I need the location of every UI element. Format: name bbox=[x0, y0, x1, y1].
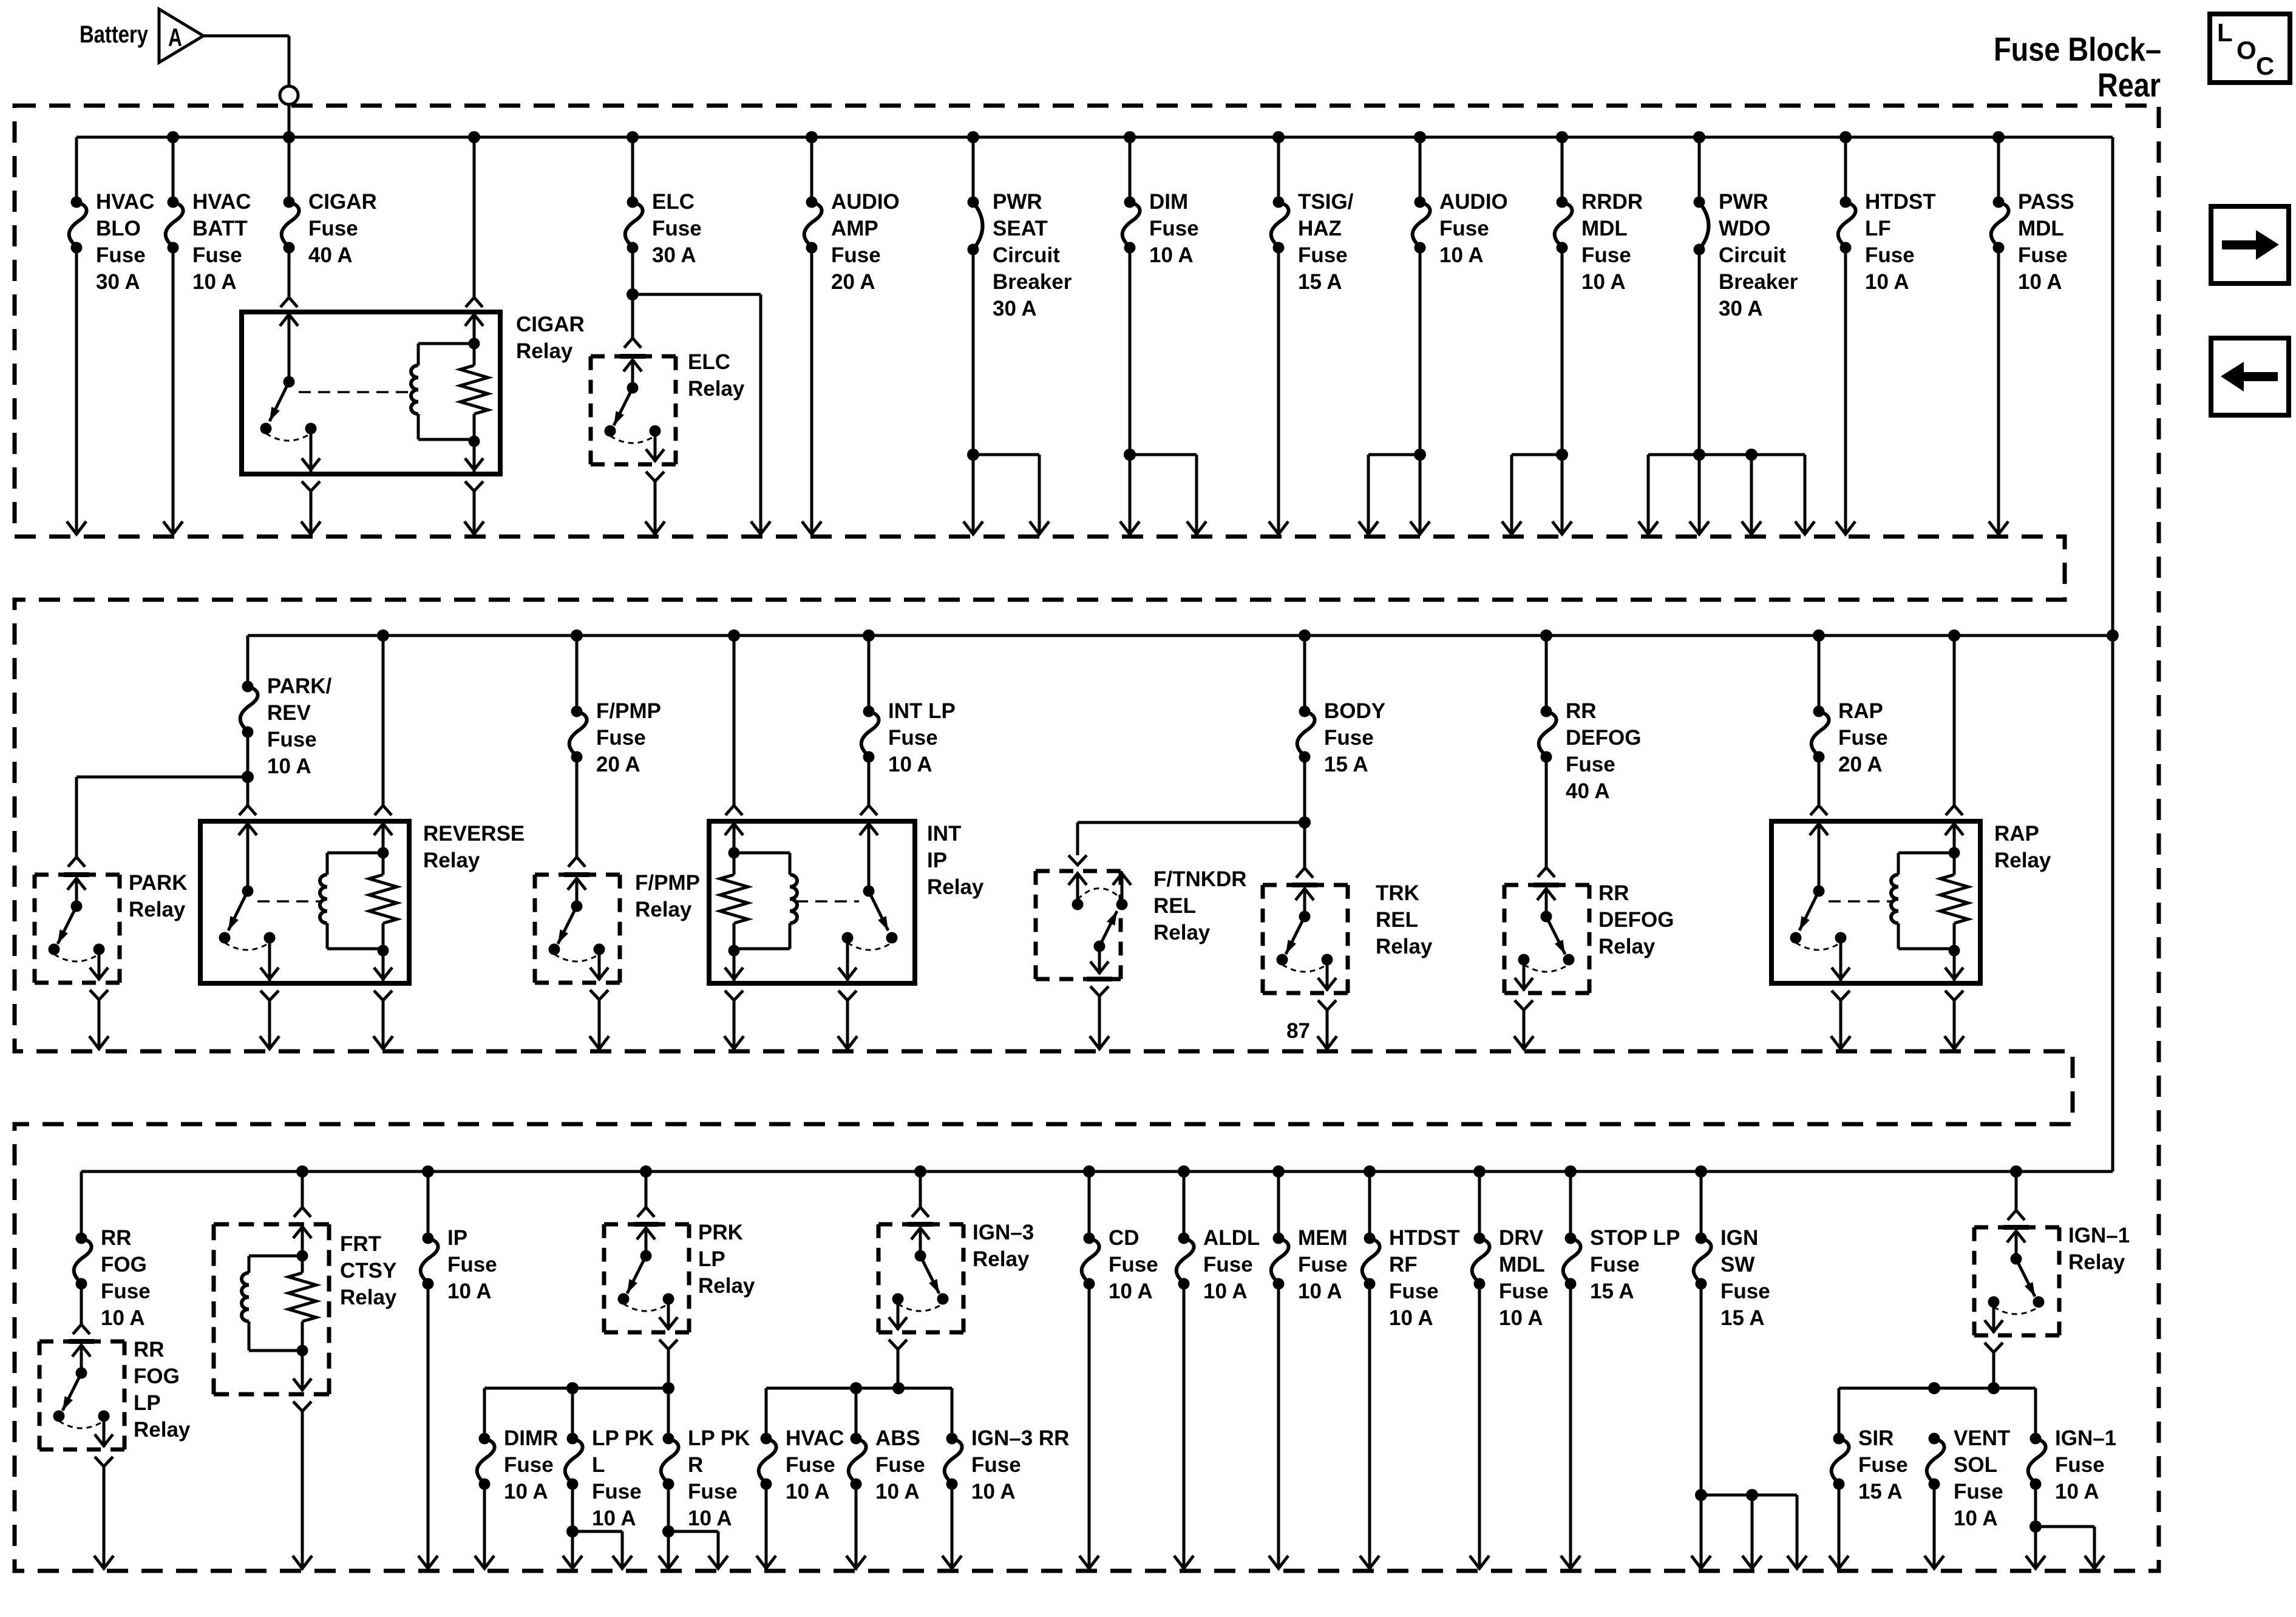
label TSIG/HAZ bbox=[1298, 190, 1354, 294]
svg-text:15 A: 15 A bbox=[1720, 1306, 1765, 1330]
svg-text:30 A: 30 A bbox=[993, 297, 1037, 320]
F/PMP relay box bbox=[535, 875, 620, 983]
page arrow right symbol bbox=[2211, 206, 2289, 283]
svg-text:Fuse: Fuse bbox=[1581, 243, 1631, 267]
RR FOG fuse bbox=[74, 1233, 92, 1290]
svg-text:HTDST: HTDST bbox=[1389, 1226, 1460, 1250]
wire RR DEFOG relay output bbox=[1514, 1010, 1533, 1049]
PWR SEAT circuit breaker bbox=[968, 137, 983, 256]
label CD bbox=[1109, 1226, 1158, 1303]
svg-text:CD: CD bbox=[1109, 1226, 1140, 1250]
svg-text:BODY: BODY bbox=[1324, 699, 1385, 723]
PRK LP relay contact bbox=[618, 1224, 678, 1330]
RRDR MDL fuse bbox=[1555, 137, 1572, 254]
svg-text:Circuit: Circuit bbox=[1719, 243, 1786, 267]
SIR fuse bbox=[1832, 1433, 1849, 1490]
wire DIM fuse outputs bbox=[1120, 248, 1206, 534]
RR DEFOG relay box bbox=[1504, 885, 1589, 993]
ELC fuse bbox=[625, 137, 643, 254]
svg-text:RR: RR bbox=[1566, 699, 1597, 723]
svg-text:MDL: MDL bbox=[1499, 1253, 1545, 1276]
STOP LP fuse bbox=[1563, 1171, 1581, 1290]
label RR FOG LP Relay bbox=[134, 1338, 191, 1442]
wire CIGAR fuse to CIGAR relay bbox=[280, 248, 297, 307]
svg-text:Fuse: Fuse bbox=[688, 1480, 738, 1503]
wire REVERSE relay switch output bbox=[260, 1000, 279, 1049]
label INT IP Relay bbox=[927, 822, 984, 899]
label VENT SOL bbox=[1954, 1426, 2010, 1530]
wire REVERSE relay coil output bbox=[373, 1000, 393, 1049]
wire STOP LP fuse to output bbox=[1561, 1284, 1580, 1568]
svg-text:AUDIO: AUDIO bbox=[1439, 190, 1508, 214]
label REVERSE Relay bbox=[423, 822, 525, 872]
label RR DEFOG Relay bbox=[1598, 881, 1674, 958]
label IGN-1 fuse bbox=[2055, 1426, 2116, 1503]
label IP bbox=[447, 1226, 497, 1303]
svg-text:Fuse: Fuse bbox=[1439, 217, 1489, 240]
label FRT CTSY Relay bbox=[340, 1232, 397, 1309]
svg-text:DIM: DIM bbox=[1149, 190, 1188, 214]
CIGAR relay mechanical link bbox=[299, 391, 412, 393]
VENT SOL fuse bbox=[1927, 1433, 1944, 1490]
INT IP relay output connectors bbox=[725, 991, 857, 1000]
svg-text:Fuse: Fuse bbox=[1858, 1453, 1908, 1477]
svg-text:RR: RR bbox=[134, 1338, 165, 1361]
svg-text:15 A: 15 A bbox=[1298, 270, 1342, 294]
svg-text:MDL: MDL bbox=[2018, 217, 2064, 240]
wire CIGAR relay coil output bbox=[464, 491, 484, 534]
wire ELC fuse to ELC relay bbox=[624, 294, 641, 348]
wire INT IP relay switch output bbox=[838, 1000, 857, 1049]
LOC reference symbol bbox=[2210, 14, 2290, 83]
svg-text:FOG: FOG bbox=[101, 1253, 147, 1276]
svg-text:Fuse: Fuse bbox=[596, 726, 646, 750]
CIGAR fuse bbox=[282, 137, 299, 254]
svg-text:Fuse: Fuse bbox=[1149, 217, 1199, 240]
wire ELC branch bbox=[633, 294, 770, 534]
wire bus 2 to REVERSE relay coil bbox=[375, 636, 392, 815]
wire HVAC BLO fuse to output bbox=[67, 248, 86, 534]
label Fuse Block- Rear bbox=[1994, 30, 2161, 104]
wire VENT SOL fuse to output bbox=[1924, 1484, 1944, 1568]
svg-text:10 A: 10 A bbox=[971, 1480, 1016, 1503]
svg-text:TRK: TRK bbox=[1376, 881, 1419, 905]
label PRK LP Relay bbox=[698, 1221, 755, 1298]
svg-text:FOG: FOG bbox=[134, 1364, 180, 1388]
svg-text:A: A bbox=[168, 23, 182, 52]
svg-text:Relay: Relay bbox=[2068, 1250, 2125, 1274]
svg-text:Fuse: Fuse bbox=[192, 243, 242, 267]
wire INT IP relay coil output bbox=[724, 1000, 744, 1049]
HVAC BLO fuse bbox=[69, 197, 87, 254]
label DIM bbox=[1149, 190, 1199, 267]
MEM fuse bbox=[1271, 1171, 1289, 1290]
label PARK Relay bbox=[129, 871, 188, 921]
connector circle at fuse block boundary bbox=[280, 86, 298, 104]
wire RR FOG LP relay output bbox=[94, 1466, 114, 1568]
wire PRK LP relay output to rail bbox=[667, 1349, 670, 1388]
svg-text:Relay: Relay bbox=[1994, 849, 2051, 872]
bus 2 junction dots bbox=[377, 629, 2119, 642]
svg-text:LF: LF bbox=[1865, 217, 1891, 240]
label IGN SW bbox=[1720, 1226, 1770, 1330]
wire F/PMP relay output bbox=[589, 1000, 609, 1049]
svg-text:Relay: Relay bbox=[927, 875, 984, 899]
label Battery bbox=[80, 21, 149, 48]
wire HTDST LF fuse to output bbox=[1836, 248, 1855, 534]
label STOP LP bbox=[1590, 1226, 1680, 1303]
IGN-3 relay box bbox=[878, 1224, 963, 1332]
wire battery to connector bbox=[203, 36, 289, 86]
svg-text:ALDL: ALDL bbox=[1203, 1226, 1260, 1250]
wire AUDIO fuse outputs bbox=[1359, 248, 1430, 534]
wire HTDST RF fuse to output bbox=[1360, 1284, 1379, 1568]
F/TNKDR REL relay contact bbox=[1068, 873, 1131, 979]
svg-text:RRDR: RRDR bbox=[1581, 190, 1643, 214]
ELC fuse output junction bbox=[627, 248, 639, 300]
label MEM bbox=[1298, 1226, 1348, 1303]
svg-text:Relay: Relay bbox=[698, 1274, 755, 1298]
DIMR fuse bbox=[477, 1433, 495, 1490]
svg-text:10 A: 10 A bbox=[2055, 1480, 2099, 1503]
svg-text:10 A: 10 A bbox=[2018, 270, 2062, 294]
svg-text:FRT: FRT bbox=[340, 1232, 381, 1256]
svg-text:ELC: ELC bbox=[688, 350, 730, 374]
svg-text:LP: LP bbox=[698, 1247, 725, 1271]
svg-text:F/TNKDR: F/TNKDR bbox=[1153, 867, 1247, 891]
wire ABS fuse to output bbox=[846, 1484, 866, 1568]
wire TSIG/HAZ fuse to output bbox=[1269, 248, 1288, 534]
svg-text:Fuse: Fuse bbox=[1324, 726, 1374, 750]
svg-text:Fuse: Fuse bbox=[1566, 753, 1615, 776]
svg-text:RR: RR bbox=[101, 1226, 132, 1250]
svg-text:HVAC: HVAC bbox=[786, 1426, 844, 1450]
svg-text:Relay: Relay bbox=[340, 1286, 397, 1309]
label RRDR MDL bbox=[1581, 190, 1643, 294]
DIM fuse bbox=[1123, 137, 1140, 254]
ABS fuse bbox=[849, 1388, 866, 1490]
wire ELC relay output bbox=[645, 481, 665, 534]
svg-text:10 A: 10 A bbox=[1499, 1306, 1543, 1330]
CD fuse bbox=[1082, 1171, 1099, 1290]
PRK LP relay box bbox=[604, 1224, 689, 1332]
INT IP relay box bbox=[709, 821, 915, 983]
IGN-3 distribution rail bbox=[766, 1382, 952, 1439]
svg-text:PWR: PWR bbox=[1719, 190, 1768, 214]
wire DIMR fuse to output bbox=[475, 1484, 494, 1568]
IGN SW fuse bbox=[1694, 1171, 1711, 1290]
svg-text:Fuse: Fuse bbox=[1838, 726, 1888, 750]
svg-text:Relay: Relay bbox=[129, 898, 186, 921]
PRK LP distribution rail bbox=[484, 1382, 674, 1439]
svg-text:DEFOG: DEFOG bbox=[1598, 908, 1674, 932]
wire PASS MDL fuse to output bbox=[1989, 248, 2008, 534]
svg-text:Fuse: Fuse bbox=[1865, 243, 1915, 267]
wire IGN-3 RR fuse to output bbox=[942, 1484, 962, 1568]
wire HVAC BATT fuse to output bbox=[163, 248, 183, 534]
svg-text:PWR: PWR bbox=[993, 190, 1042, 214]
svg-text:VENT: VENT bbox=[1954, 1426, 2010, 1450]
label PARK/REV bbox=[267, 674, 332, 778]
svg-text:Relay: Relay bbox=[688, 377, 745, 401]
TRK REL relay output connector bbox=[1318, 1000, 1336, 1010]
svg-text:10 A: 10 A bbox=[875, 1480, 920, 1503]
svg-text:L: L bbox=[592, 1453, 605, 1477]
label CIGAR Relay bbox=[516, 313, 585, 363]
svg-text:20 A: 20 A bbox=[1838, 753, 1883, 776]
svg-text:REL: REL bbox=[1376, 908, 1418, 932]
PRK LP relay output connector bbox=[659, 1340, 678, 1349]
svg-text:10 A: 10 A bbox=[101, 1306, 145, 1330]
IGN-1 distribution rail bbox=[1839, 1382, 2036, 1439]
svg-text:AUDIO: AUDIO bbox=[831, 190, 900, 214]
label F/PMP Relay bbox=[635, 871, 700, 921]
wire RAP fuse to RAP relay bbox=[1810, 757, 1827, 815]
svg-text:IGN–3 RR: IGN–3 RR bbox=[971, 1426, 1069, 1450]
svg-text:10 A: 10 A bbox=[1389, 1306, 1433, 1330]
svg-text:10 A: 10 A bbox=[1865, 270, 1909, 294]
wire SIR fuse to output bbox=[1829, 1484, 1849, 1568]
svg-text:IGN–3: IGN–3 bbox=[973, 1221, 1034, 1244]
wire INT LP fuse to INT IP relay bbox=[860, 757, 877, 815]
wire AUDIO AMP fuse to output bbox=[802, 248, 821, 534]
wire BODY fuse to F/TNKDR REL relay bbox=[1068, 822, 1305, 865]
RAP relay box bbox=[1771, 821, 1980, 983]
wire PARK relay output bbox=[89, 1000, 109, 1049]
svg-text:10 A: 10 A bbox=[192, 270, 237, 294]
label F/TNKDR REL Relay bbox=[1153, 867, 1247, 944]
svg-text:Relay: Relay bbox=[423, 849, 480, 872]
label ELC bbox=[652, 190, 702, 267]
INT IP relay coil bbox=[720, 821, 797, 981]
page arrow left symbol bbox=[2211, 338, 2289, 415]
svg-text:10 A: 10 A bbox=[447, 1280, 492, 1303]
FRT CTSY relay coil bbox=[242, 1224, 316, 1391]
svg-text:Relay: Relay bbox=[134, 1418, 191, 1442]
INT LP fuse bbox=[861, 636, 879, 763]
PARK relay output connector bbox=[90, 990, 108, 1000]
IGN-1 relay output connector bbox=[1985, 1343, 2003, 1352]
CIGAR relay contact bbox=[260, 312, 321, 472]
svg-text:INT LP: INT LP bbox=[888, 699, 956, 723]
wire connector to bus 1 bbox=[288, 104, 291, 137]
wire ALDL fuse to output bbox=[1174, 1284, 1194, 1568]
svg-text:10 A: 10 A bbox=[888, 753, 932, 776]
svg-text:Breaker: Breaker bbox=[1719, 270, 1798, 294]
label IGN-1 Relay bbox=[2068, 1224, 2130, 1274]
RR FOG LP relay box bbox=[39, 1341, 124, 1449]
BODY fuse output junction bbox=[1299, 757, 1311, 829]
label ABS bbox=[875, 1426, 925, 1503]
svg-text:15 A: 15 A bbox=[1858, 1480, 1903, 1503]
svg-text:DIMR: DIMR bbox=[504, 1426, 558, 1450]
CIGAR relay box bbox=[242, 312, 500, 474]
svg-text:LP PK: LP PK bbox=[592, 1426, 654, 1450]
svg-text:HAZ: HAZ bbox=[1298, 217, 1342, 240]
wire IGN-1 relay output to rail bbox=[1992, 1352, 1995, 1388]
svg-text:HTDST: HTDST bbox=[1865, 190, 1936, 214]
IGN-1 fuse bbox=[2028, 1433, 2046, 1490]
svg-text:REVERSE: REVERSE bbox=[423, 822, 525, 846]
svg-text:10 A: 10 A bbox=[786, 1480, 830, 1503]
HVAC BATT fuse bbox=[166, 137, 183, 254]
label LP PK R bbox=[688, 1426, 750, 1530]
label PWR WDO bbox=[1719, 190, 1798, 320]
wire IGN-3 relay output to rail bbox=[897, 1349, 900, 1388]
svg-text:10 A: 10 A bbox=[688, 1507, 732, 1530]
F/TNKDR REL relay box bbox=[1036, 871, 1121, 979]
CIGAR relay output connectors bbox=[302, 481, 483, 491]
TRK REL relay box bbox=[1263, 885, 1348, 993]
IGN-3 relay contact bbox=[889, 1224, 949, 1330]
label TRK REL Relay bbox=[1376, 881, 1433, 958]
svg-text:PRK: PRK bbox=[698, 1221, 743, 1244]
svg-text:Relay: Relay bbox=[973, 1247, 1030, 1271]
ALDL fuse bbox=[1177, 1171, 1194, 1290]
svg-text:SOL: SOL bbox=[1954, 1453, 1997, 1477]
svg-text:HVAC: HVAC bbox=[192, 190, 251, 214]
wire bus 2 to RAP relay coil bbox=[1946, 636, 1963, 815]
svg-text:Circuit: Circuit bbox=[993, 243, 1060, 267]
wire IGN SW fuse outputs bbox=[1691, 1284, 1807, 1568]
svg-text:15 A: 15 A bbox=[1590, 1280, 1634, 1303]
svg-text:IGN–1: IGN–1 bbox=[2068, 1224, 2130, 1247]
svg-text:Fuse: Fuse bbox=[1389, 1280, 1439, 1303]
label RR DEFOG bbox=[1566, 699, 1641, 803]
FRT CTSY relay box bbox=[214, 1224, 329, 1394]
IGN-3 relay output connector bbox=[889, 1340, 907, 1349]
INT IP relay contact bbox=[838, 821, 898, 981]
RAP relay output connectors bbox=[1832, 991, 1963, 1000]
svg-text:30 A: 30 A bbox=[96, 270, 140, 294]
ELC relay contact bbox=[605, 356, 665, 462]
svg-text:Fuse: Fuse bbox=[1720, 1280, 1770, 1303]
RR DEFOG relay contact bbox=[1515, 885, 1575, 991]
wire bus 2 to INT IP relay coil bbox=[725, 636, 742, 815]
svg-text:PARK: PARK bbox=[129, 871, 188, 895]
wire CIGAR relay switch output bbox=[301, 491, 321, 534]
CIGAR relay coil bbox=[411, 312, 488, 472]
wire LP PK L fuse outputs bbox=[563, 1484, 632, 1568]
svg-text:Fuse: Fuse bbox=[888, 726, 938, 750]
svg-text:Breaker: Breaker bbox=[993, 270, 1072, 294]
svg-text:F/PMP: F/PMP bbox=[635, 871, 700, 895]
svg-text:Fuse: Fuse bbox=[971, 1453, 1021, 1477]
label HVAC bbox=[786, 1426, 844, 1503]
bus 3 bbox=[81, 1171, 2113, 1238]
RR DEFOG fuse bbox=[1539, 636, 1557, 763]
wire HVAC fuse to output bbox=[756, 1484, 776, 1568]
wire IP fuse to output bbox=[418, 1284, 438, 1568]
label 87 bbox=[1286, 1019, 1310, 1043]
F/TNKDR REL relay output connector bbox=[1090, 986, 1109, 996]
svg-text:DEFOG: DEFOG bbox=[1566, 726, 1641, 750]
svg-text:15 A: 15 A bbox=[1324, 753, 1368, 776]
REVERSE relay box bbox=[200, 821, 409, 983]
svg-text:IGN–1: IGN–1 bbox=[2055, 1426, 2116, 1450]
svg-text:Fuse: Fuse bbox=[1499, 1280, 1549, 1303]
svg-text:30 A: 30 A bbox=[652, 243, 696, 267]
svg-text:RAP: RAP bbox=[1994, 822, 2039, 846]
svg-text:TSIG/: TSIG/ bbox=[1298, 190, 1354, 214]
svg-text:Fuse: Fuse bbox=[831, 243, 881, 267]
svg-text:AMP: AMP bbox=[831, 217, 878, 240]
wire DRV MDL fuse to output bbox=[1470, 1284, 1489, 1568]
svg-text:RF: RF bbox=[1389, 1253, 1418, 1276]
LP PK L fuse bbox=[565, 1388, 583, 1490]
wire PWR WDO breaker outputs bbox=[1639, 249, 1815, 534]
wire RAP relay switch output bbox=[1831, 1000, 1850, 1049]
label IGN-3 RR bbox=[971, 1426, 1069, 1503]
svg-text:Fuse: Fuse bbox=[1298, 243, 1348, 267]
svg-text:Fuse: Fuse bbox=[308, 217, 358, 240]
svg-text:10 A: 10 A bbox=[1109, 1280, 1153, 1303]
label RR FOG bbox=[101, 1226, 151, 1330]
svg-text:10 A: 10 A bbox=[592, 1507, 636, 1530]
svg-text:LP PK: LP PK bbox=[688, 1426, 750, 1450]
bus 1 junction dots bbox=[167, 131, 2005, 143]
label INT LP bbox=[888, 699, 956, 776]
wire PARK/REV fuse to REVERSE relay bbox=[239, 777, 256, 815]
bus 1 (battery feed bus) bbox=[76, 137, 2113, 1171]
svg-text:Battery: Battery bbox=[80, 21, 149, 48]
label AUDIO AMP bbox=[831, 190, 900, 294]
svg-text:Relay: Relay bbox=[1153, 921, 1211, 944]
PARK relay box bbox=[35, 875, 120, 983]
label HVAC BATT bbox=[192, 190, 251, 294]
label AUDIO bbox=[1439, 190, 1508, 267]
TRK REL relay contact bbox=[1277, 885, 1337, 991]
F/PMP relay output connector bbox=[590, 990, 608, 1000]
svg-text:BATT: BATT bbox=[192, 217, 248, 240]
label LP PK L bbox=[592, 1426, 654, 1530]
svg-text:R: R bbox=[688, 1453, 703, 1477]
HVAC fuse bbox=[759, 1433, 776, 1490]
svg-text:Fuse: Fuse bbox=[447, 1253, 497, 1276]
ELC relay box bbox=[591, 356, 676, 464]
label DRV MDL bbox=[1499, 1226, 1549, 1330]
svg-text:MEM: MEM bbox=[1298, 1226, 1348, 1250]
wire bus 3 to IGN-3 relay bbox=[912, 1171, 929, 1217]
svg-text:10 A: 10 A bbox=[1954, 1507, 1998, 1530]
label RAP bbox=[1838, 699, 1888, 776]
RR FOG LP relay contact bbox=[53, 1341, 114, 1447]
svg-text:10 A: 10 A bbox=[1149, 243, 1194, 267]
svg-text:Fuse: Fuse bbox=[652, 217, 702, 240]
REVERSE relay contact bbox=[219, 821, 279, 981]
wire BODY fuse to TRK REL relay bbox=[1296, 822, 1313, 878]
FRT CTSY relay output connector bbox=[293, 1402, 311, 1411]
REVERSE relay coil bbox=[320, 821, 397, 981]
label ALDL bbox=[1203, 1226, 1260, 1303]
svg-text:Fuse: Fuse bbox=[786, 1453, 835, 1477]
svg-text:PARK/: PARK/ bbox=[267, 674, 332, 698]
RAP relay mechanical link bbox=[1829, 900, 1892, 903]
svg-text:10 A: 10 A bbox=[267, 754, 311, 778]
svg-text:INT: INT bbox=[927, 822, 961, 846]
label F/PMP bbox=[596, 699, 661, 776]
svg-text:Fuse: Fuse bbox=[267, 728, 317, 751]
ELC relay output connector bbox=[646, 472, 664, 481]
svg-text:O: O bbox=[2237, 36, 2257, 64]
svg-text:CIGAR: CIGAR bbox=[516, 313, 585, 336]
svg-text:Fuse: Fuse bbox=[96, 243, 146, 267]
svg-text:REL: REL bbox=[1153, 894, 1196, 918]
REVERSE relay output connectors bbox=[260, 991, 392, 1000]
wire bus 3 to IGN-1 relay bbox=[2008, 1171, 2025, 1220]
label IGN-3 Relay bbox=[973, 1221, 1034, 1271]
svg-text:L: L bbox=[2217, 18, 2233, 47]
